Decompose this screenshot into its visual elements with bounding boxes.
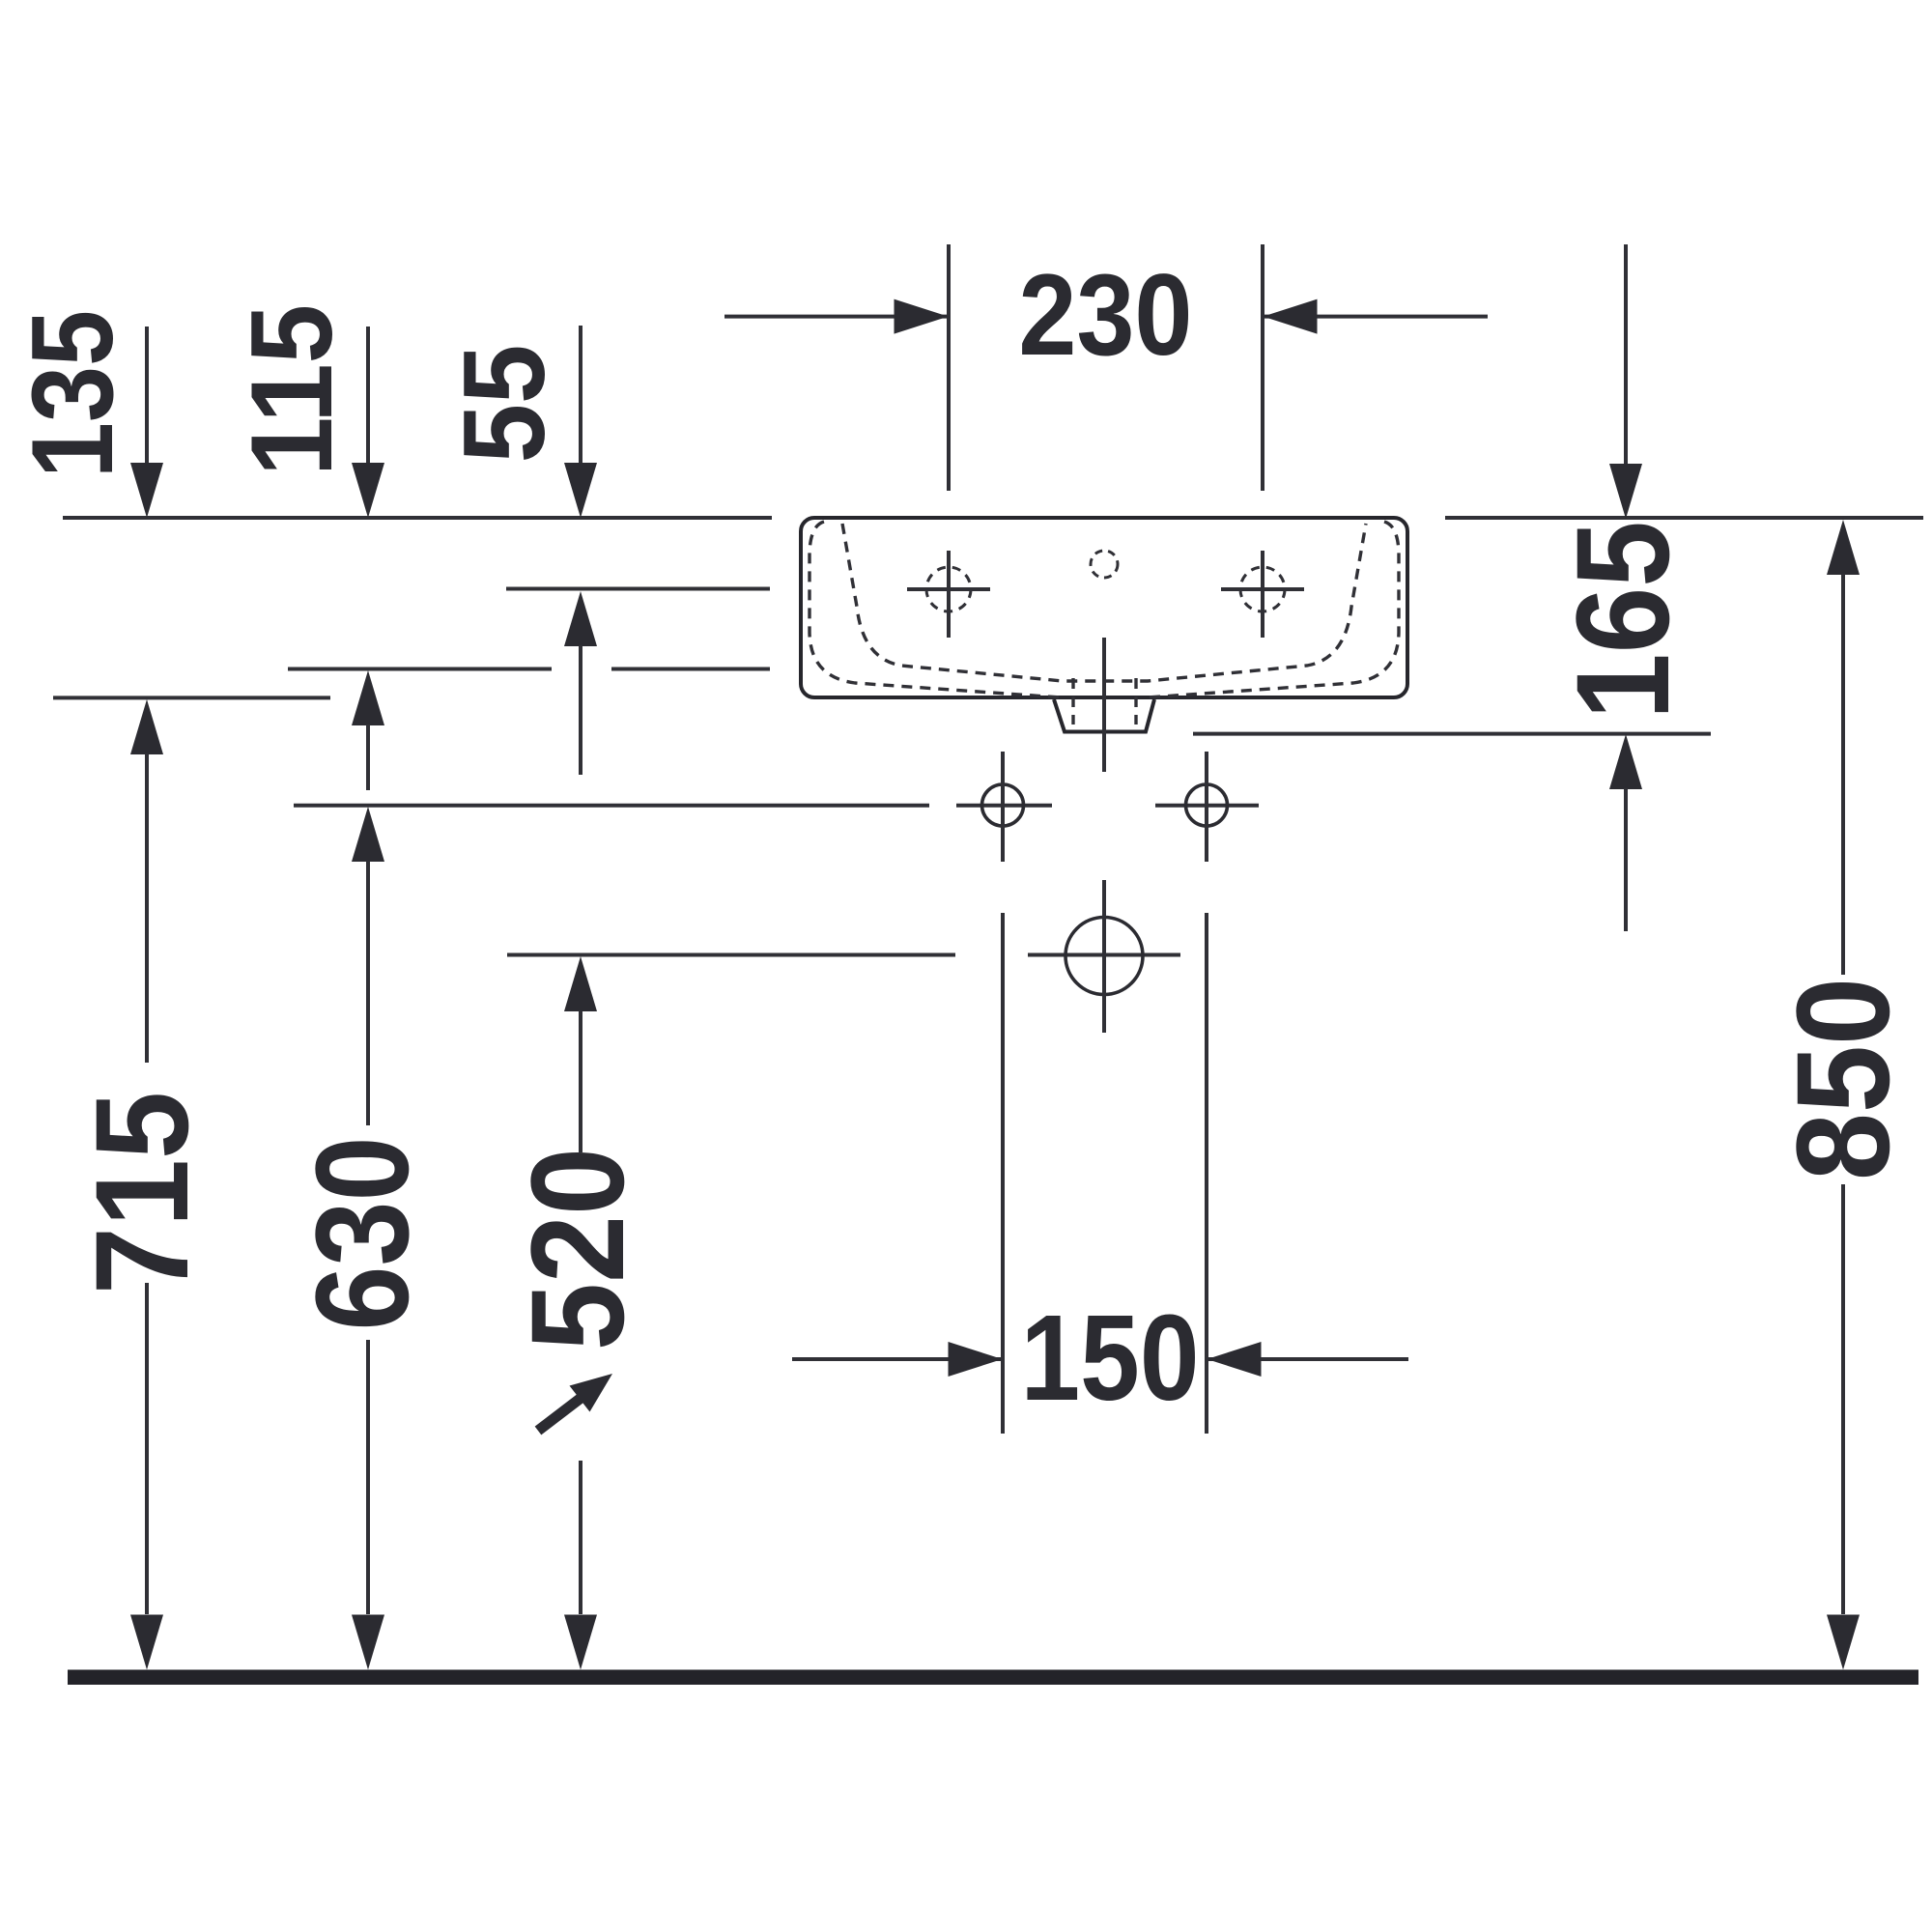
svg-text:520: 520 (503, 1148, 651, 1350)
svg-text:165: 165 (1548, 521, 1696, 720)
svg-text:230: 230 (1018, 251, 1192, 380)
svg-text:135: 135 (7, 310, 136, 478)
svg-text:115: 115 (228, 304, 356, 476)
svg-text:630: 630 (289, 1136, 437, 1330)
svg-text:850: 850 (1769, 978, 1917, 1180)
svg-text:55: 55 (440, 345, 569, 464)
svg-text:715: 715 (68, 1092, 215, 1294)
svg-text:150: 150 (1021, 1291, 1200, 1426)
